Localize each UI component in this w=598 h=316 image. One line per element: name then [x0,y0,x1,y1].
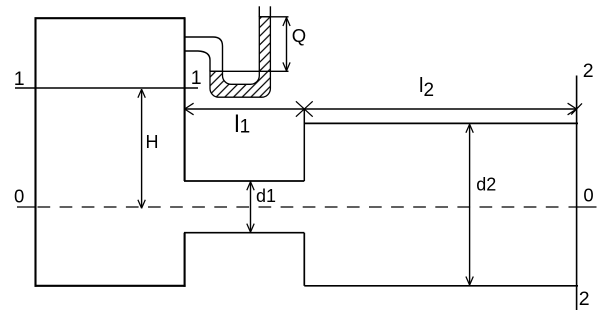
pipe d2 top wall [304,122,578,124]
svg-text:0: 0 [14,186,24,207]
pipe d1 top wall [184,180,304,182]
manometer inlet tube bottom line [185,51,210,71]
manometer inlet tube top line [185,37,223,71]
svg-text:1: 1 [14,68,25,90]
arrowhead right at section 2 with slash [568,103,582,115]
dimension d1 arrowheads [247,182,254,232]
manometer right tube left wall [258,6,260,16]
manometer right tube right wall [269,6,271,16]
centerline 0-0 left solid [17,206,35,208]
tank right wall upper segment [184,17,186,181]
svg-text:l2: l2 [419,75,434,101]
section line 2-2 [576,76,578,311]
dimension d2 arrowheads [466,124,473,285]
arrowhead left at tank wall [185,103,194,115]
centerline 0-0 dashed [38,206,566,208]
mercury in U-tube (hatched) [210,17,270,97]
svg-text:d2: d2 [476,174,496,194]
dimension d1 line [250,182,252,232]
dimension d2 line [469,124,471,285]
dimension Q line [286,18,288,71]
svg-text:d1: d1 [256,186,276,206]
mercury level line lower [210,70,289,72]
svg-text:1: 1 [191,67,202,89]
tank bottom [35,285,186,287]
svg-text:2: 2 [583,60,594,82]
tank right wall lower segment [184,233,186,287]
dimension line l1 l2 [185,108,577,110]
centerline 0-0 right solid [569,206,597,208]
pipe d2 bottom wall [304,285,578,287]
mercury level line upper [259,16,288,18]
dimension Q arrowheads [283,18,290,71]
dimension H line [141,89,143,208]
step wall top [303,109,305,181]
dimension H arrowheads [138,89,145,208]
double arrowhead X at step [296,101,313,116]
step wall bottom [303,233,305,286]
svg-text:l1: l1 [234,111,250,138]
svg-text:0: 0 [583,185,593,206]
tank outline [36,18,186,287]
section line 1-1 [15,87,198,89]
svg-text:2: 2 [579,288,590,310]
svg-text:Q: Q [292,25,306,46]
svg-text:H: H [146,132,159,152]
pipe d1 bottom wall [184,232,304,234]
